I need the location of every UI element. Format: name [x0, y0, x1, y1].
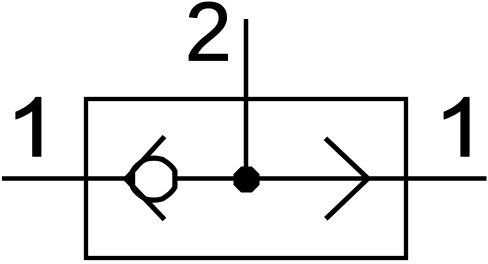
- wire: vertical line from port 2 down to junction: [244, 19, 249, 180]
- check valve ball (octagonal circle): [133, 158, 175, 200]
- valve enclosure box: [86, 99, 406, 258]
- port label 2 (top): [189, 2, 228, 61]
- wire: horizontal main line port 1 to port 1: [2, 176, 487, 181]
- check valve seat (V lines): [126, 137, 165, 220]
- port label 1 (left): [16, 97, 41, 156]
- junction node (filled octagon): [234, 167, 260, 193]
- flow arrow chevron: [325, 138, 368, 219]
- port label 1 (right): [444, 97, 469, 156]
